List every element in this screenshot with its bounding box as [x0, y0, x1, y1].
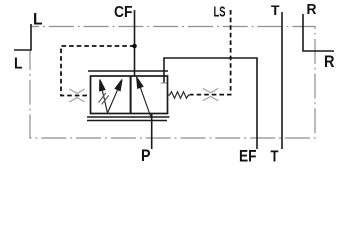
svg-text:LS: LS — [214, 5, 226, 21]
flow path arrow (right section, P to CF) — [137, 77, 151, 117]
LS pilot line (dashed) — [190, 10, 231, 95]
valve section divider — [130, 76, 132, 114]
svg-text:P: P — [141, 147, 151, 165]
port P line — [151, 114, 153, 149]
valve body envelope — [91, 76, 168, 114]
flow path arrow (left section, metered branch) — [100, 80, 108, 114]
bottom rail 1 — [87, 116, 170, 118]
blocked port crossbar — [161, 82, 169, 84]
top rail — [88, 70, 168, 72]
pilot line from CF (dashed) — [61, 46, 135, 96]
svg-text:T: T — [271, 149, 279, 166]
port EF wire (valve top to EF port) — [164, 58, 257, 149]
svg-text:L: L — [33, 11, 43, 29]
svg-text:R: R — [307, 1, 317, 18]
metering restriction slashes — [99, 93, 109, 104]
bottom rail 2 — [87, 120, 167, 122]
svg-text:EF: EF — [239, 148, 257, 166]
port R line — [303, 14, 334, 51]
port CF line — [134, 10, 136, 76]
svg-text:T: T — [271, 2, 280, 18]
junction dot on CF pilot tap — [132, 44, 137, 49]
svg-text:L: L — [14, 56, 23, 73]
pilot orifice (right) — [203, 88, 218, 100]
flow path arrow (left section, right branch) — [108, 80, 123, 114]
port T line — [281, 12, 283, 149]
enclosure boundary (dash-dot assembly envelope) — [30, 27, 315, 139]
port L line — [14, 24, 31, 50]
pilot orifice (left) — [69, 89, 84, 102]
svg-text:CF: CF — [114, 4, 133, 21]
spring — [168, 92, 191, 98]
svg-text:R: R — [324, 53, 335, 71]
